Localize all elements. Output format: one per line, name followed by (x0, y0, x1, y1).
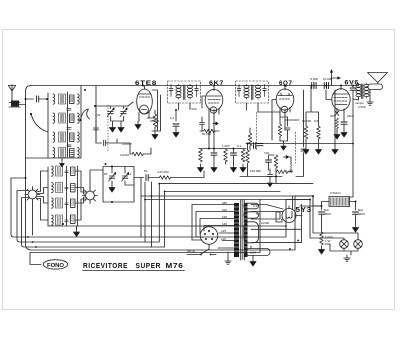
svg-text:140: 140 (222, 222, 227, 226)
ground C21 (353, 224, 359, 232)
wire return w3 (17, 184, 313, 242)
band switch S3 rotary (83, 188, 98, 204)
secondary HT top (251, 212, 280, 219)
capacitor det (266, 160, 272, 162)
tube 6K7 (205, 86, 223, 119)
svg-text:100.000: 100.000 (250, 169, 261, 173)
ground 6V6 C (341, 129, 347, 137)
band switch S1a arm (30, 113, 48, 132)
wire osc fan right (75, 171, 86, 220)
capacitor osc grid (173, 124, 179, 126)
ground padder (109, 184, 115, 192)
ground 6Q7 cathode (281, 143, 286, 150)
wire voice coil (367, 87, 371, 99)
output transformer T3 (353, 84, 369, 101)
resistor det load h (277, 170, 293, 174)
wire choke ends (322, 202, 356, 211)
wire after resistor (171, 171, 204, 178)
svg-text:SUPER: SUPER (136, 263, 162, 270)
padder box (103, 167, 134, 203)
wire cap to coils (39, 93, 48, 158)
capacitor interrow 1 (67, 109, 71, 111)
wire antenna cap lead (26, 98, 34, 100)
svg-text:1 MΩ: 1 MΩ (286, 169, 294, 173)
ground 6V6 R (334, 131, 340, 139)
ground osc bank (74, 229, 80, 237)
wire 6K7 grid top (202, 96, 205, 108)
ground 6TE8 cathode (135, 121, 141, 129)
svg-text:220: 220 (222, 208, 227, 212)
wire 5Y3 plate loop (276, 212, 282, 222)
wire 5Y3 output (251, 196, 322, 212)
arrow tone pot up (330, 69, 341, 86)
ground voice coil (367, 99, 373, 105)
wire trimmer3 leads (112, 167, 134, 186)
pilot lamp P1 (340, 240, 349, 249)
svg-text:160: 160 (222, 215, 227, 219)
ground R10 (303, 146, 309, 154)
svg-text:2x300: 2x300 (261, 221, 270, 225)
svg-text:4.40/47: 4.40/47 (122, 142, 132, 146)
wire 6V6 grid (326, 90, 331, 100)
oscillator bank rails (48, 166, 78, 226)
resistor R10 (304, 126, 308, 139)
tube 5Y3 (282, 206, 302, 223)
coil L3a row (52, 166, 76, 176)
speaker voice coil (368, 84, 383, 90)
power transformer secondary winding (245, 203, 249, 257)
capacitor interrow 2 (67, 128, 71, 130)
coil bank1 rails (68, 86, 97, 158)
svg-text:25μF: 25μF (347, 114, 354, 118)
resistor R osc (159, 176, 170, 180)
wire 6V6 cathode (337, 118, 344, 131)
resistor diode load (248, 128, 252, 150)
voltage selector wiring (192, 205, 229, 249)
trimmer CT3 (109, 172, 116, 181)
svg-text:M76: M76 (166, 263, 184, 270)
coil L3b row (52, 183, 76, 193)
resistor R6 (224, 149, 228, 162)
wire return w5 (30, 200, 260, 253)
capacitor interrow 3 (67, 145, 71, 147)
capacitor mixer grid (104, 140, 106, 145)
svg-text:5.000: 5.000 (189, 107, 197, 111)
ground lamps (344, 255, 350, 261)
tube 6TE8 (137, 86, 153, 122)
IF transformer T2 (236, 81, 269, 112)
wire resistor out (143, 148, 151, 154)
wire mixer grid row (96, 139, 132, 154)
wire main B+ loop (26, 86, 296, 251)
svg-text:0,1: 0,1 (237, 144, 242, 148)
wire line x335 (334, 90, 336, 146)
band switch S1b arm (79, 109, 89, 121)
svg-text:5Y3: 5Y3 (296, 207, 312, 214)
power transformer T4 primary winding (234, 203, 239, 257)
ground trimmers (110, 124, 116, 132)
resistor R8 plate (246, 150, 250, 163)
capacitor C1 antenna (37, 96, 39, 102)
secondary 6.3 bottom (246, 249, 270, 259)
capacitor filter C20 (319, 212, 325, 232)
wire volume (276, 157, 291, 184)
capacitor C6 (231, 153, 237, 155)
dashed gang link (295, 132, 297, 163)
wire bank1 to grid (81, 86, 107, 106)
svg-text:110: 110 (221, 237, 226, 241)
voltage selector plug (192, 227, 218, 245)
svg-text:25.000: 25.000 (150, 119, 160, 123)
svg-text:125: 125 (221, 229, 226, 233)
primary taps (229, 205, 234, 249)
arrow AVC (213, 122, 218, 125)
antenna (8, 85, 15, 104)
capacitor C8 (254, 143, 256, 149)
svg-text:4.25.000: 4.25.000 (157, 170, 169, 174)
svg-text:RICEVITORE: RICEVITORE (83, 263, 128, 270)
resistor R5 (199, 149, 203, 162)
capacitor C osc (146, 175, 148, 181)
antenna coupling coil L1 (9, 101, 26, 108)
svg-text:50.000: 50.000 (202, 132, 212, 136)
ground R11 (316, 146, 322, 154)
svg-text:1 W: 1 W (325, 239, 331, 243)
ground C5 (211, 164, 217, 172)
choke field coil (329, 197, 350, 207)
capacitor series C13 (324, 83, 328, 89)
capacitor 6K7 cathode (200, 117, 205, 131)
mains switch (187, 244, 216, 255)
capacitor bypass x96 (93, 128, 98, 130)
resistor R7 (241, 149, 245, 162)
svg-text:50.000: 50.000 (302, 119, 312, 123)
coil L3c row (52, 198, 76, 208)
wire fono lead (30, 253, 41, 265)
capacitor series C12 (312, 83, 316, 89)
ground C6 (231, 164, 237, 172)
wire return w2 (11, 178, 286, 237)
wire screen (147, 110, 155, 131)
svg-text:12: 12 (128, 172, 132, 176)
svg-text:0,1: 0,1 (170, 116, 175, 120)
wire return w4 (22, 192, 281, 248)
speaker cone (368, 73, 388, 85)
secondary loop 5V (244, 212, 259, 218)
FONO terminal (43, 260, 67, 269)
trimmer CT4 (122, 172, 129, 181)
title RICEVITORE SUPER M76 (83, 263, 185, 271)
ground x335 (332, 146, 338, 154)
svg-text:50: 50 (104, 172, 108, 176)
secondary tap 5V (251, 211, 283, 213)
trimmer CT2 (120, 108, 127, 117)
svg-text:50: 50 (144, 169, 148, 173)
wire mid bus y143 (246, 143, 353, 145)
coil L3d row (52, 215, 76, 225)
arrow volume wiper (283, 156, 288, 159)
capacitor coupling 6Q7 (257, 144, 263, 146)
svg-text:RETE: RETE (187, 249, 195, 253)
svg-text:6V6: 6V6 (345, 81, 360, 87)
capacitor 6V6 cathode (341, 122, 347, 124)
dashed link T2 (256, 112, 258, 150)
wire osc to mixer (134, 177, 144, 179)
ground primary shield (225, 252, 231, 264)
capacitor plate HF (350, 88, 356, 90)
capacitor avc column (301, 149, 306, 151)
ground bleeder (319, 246, 325, 254)
trimmer CT1 (107, 108, 114, 117)
svg-text:2,5V: 2,5V (250, 251, 256, 255)
svg-text:6TE8: 6TE8 (135, 80, 157, 87)
ground screen (152, 131, 158, 139)
svg-text:6,3V: 6,3V (253, 204, 259, 208)
wire C6 (226, 149, 234, 165)
pilot lamp P2 (354, 240, 363, 249)
resistor 6K7 plate h (200, 129, 219, 133)
wire osc fan left (37, 171, 48, 220)
resistor 6TE8 screen (153, 114, 157, 127)
secondary center tap (250, 246, 252, 249)
resistor mixer grid (132, 152, 143, 156)
IF transformer T1 (168, 81, 201, 110)
wire plate to choke (332, 86, 353, 198)
svg-text:5.000: 5.000 (311, 77, 319, 81)
coil L2c row (53, 132, 79, 142)
wire bank1 bottom (26, 158, 82, 161)
svg-text:6K7: 6K7 (209, 80, 224, 87)
wire trimmer leads (96, 106, 128, 143)
tube 6Q7 (276, 86, 294, 121)
wire to resistor (148, 177, 159, 179)
svg-text:2.500: 2.500 (358, 105, 366, 109)
svg-text:5V: 5V (256, 212, 260, 216)
wire avc column (296, 90, 304, 177)
wire osc bottom (33, 203, 287, 236)
wire B+ node (286, 196, 322, 206)
secondary loop 6.3V (244, 203, 259, 209)
wire det (269, 155, 275, 170)
wire 6Q7 couplings (258, 100, 280, 141)
resistor R11 (317, 126, 321, 139)
svg-text:400: 400 (330, 114, 335, 118)
wire plate drop (240, 144, 282, 177)
svg-text:20: 20 (97, 113, 101, 117)
coil L2d row (53, 148, 79, 158)
ground bank1 (60, 161, 65, 167)
coil L2a row (53, 94, 79, 104)
resistor vol lower (290, 165, 292, 173)
capacitor C5 (211, 153, 217, 155)
svg-text:280: 280 (222, 201, 227, 205)
resistor volume (274, 155, 278, 168)
resistor 6V6 cathode (336, 118, 339, 128)
wire C5 (213, 149, 215, 165)
capacitor 6Q7 cathode (280, 128, 290, 143)
ground osc cap (173, 129, 179, 137)
value labels (97, 77, 366, 255)
wire top bus (31, 85, 332, 87)
svg-text:0,0001: 0,0001 (120, 153, 130, 157)
wire R10 R11 (306, 86, 319, 147)
resistor bleeder (320, 232, 324, 245)
svg-text:2.500 Ω: 2.500 Ω (330, 191, 341, 195)
wire to 6TE8 grid (128, 102, 133, 106)
wire 6Q7 grid return (285, 120, 299, 130)
svg-text:10.000: 10.000 (323, 77, 333, 81)
wire osc vertical drops (141, 178, 152, 248)
wire osc grid cap (175, 110, 177, 129)
resistor 6Q7 cathode (278, 114, 287, 141)
wire osc triode verticals (152, 90, 161, 131)
dashed gang vertical (107, 105, 109, 152)
svg-text:6Q7: 6Q7 (279, 80, 293, 87)
svg-text:VOL: VOL (264, 151, 270, 155)
secondary loop HT (244, 222, 259, 243)
wire osc top link (90, 170, 103, 188)
ground trimmer b (118, 124, 124, 132)
coil L2b row (53, 113, 79, 123)
svg-text:0,5: 0,5 (314, 119, 319, 123)
svg-text:1.000: 1.000 (222, 144, 230, 148)
ground center tap (250, 258, 256, 266)
svg-text:450V: 450V (324, 212, 331, 216)
tube 6V6 (332, 86, 350, 119)
wire heater bus extensions (141, 196, 313, 200)
svg-text:450V: 450V (358, 212, 365, 216)
bus under 6K7 (199, 116, 247, 149)
power transformer core (241, 200, 245, 260)
svg-text:FONO: FONO (47, 263, 64, 269)
capacitor filter C21 (353, 212, 359, 224)
wire lamps (310, 196, 358, 255)
secondary HT bottom (251, 229, 301, 242)
band switch S2 rotary (25, 187, 40, 203)
ground R7 (240, 164, 246, 172)
ground R5 (198, 164, 204, 172)
capacitor det out (267, 169, 272, 187)
